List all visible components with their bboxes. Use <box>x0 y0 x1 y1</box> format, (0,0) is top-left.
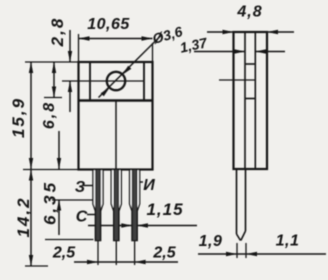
svg-text:14,2: 14,2 <box>14 196 33 237</box>
svg-text:15,9: 15,9 <box>9 97 28 138</box>
svg-text:1,15: 1,15 <box>146 200 183 219</box>
svg-text:2,5: 2,5 <box>152 245 176 262</box>
svg-text:4,8: 4,8 <box>236 4 262 21</box>
svg-text:2,8: 2,8 <box>48 17 67 48</box>
svg-text:1,1: 1,1 <box>276 233 300 250</box>
svg-text:С: С <box>76 209 88 226</box>
svg-text:6,8: 6,8 <box>41 101 58 129</box>
svg-text:З: З <box>75 179 85 196</box>
svg-text:10,65: 10,65 <box>87 16 130 33</box>
svg-text:6,35: 6,35 <box>41 180 60 225</box>
svg-text:2,5: 2,5 <box>52 245 76 262</box>
svg-text:1,9: 1,9 <box>199 233 223 250</box>
svg-text:И: И <box>143 177 155 194</box>
